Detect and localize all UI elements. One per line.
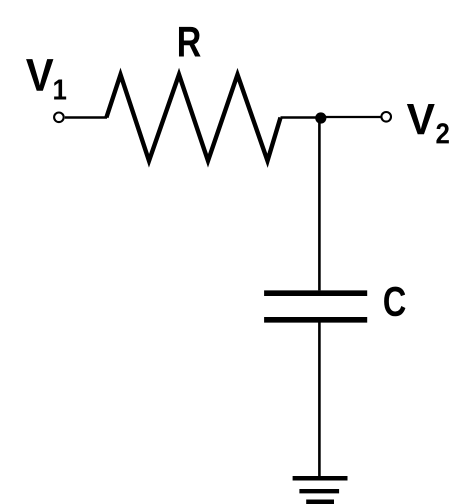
wire	[65, 116, 107, 118]
wire	[318, 323, 321, 479]
wire	[318, 118, 321, 290]
capacitor C	[264, 293, 367, 320]
wire	[321, 116, 381, 118]
wire	[281, 116, 321, 118]
node junction	[315, 112, 326, 123]
label R	[179, 27, 201, 57]
terminal V1	[54, 113, 64, 123]
resistor R	[106, 75, 280, 161]
ground	[293, 478, 348, 502]
label V1	[26, 59, 66, 99]
label V2	[407, 104, 449, 143]
terminal V2	[381, 112, 391, 122]
label C	[384, 287, 405, 317]
